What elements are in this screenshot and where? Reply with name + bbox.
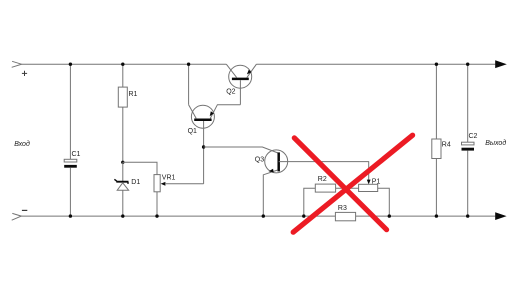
VR1 wiper arrow bbox=[161, 182, 204, 186]
transistor Q3 bbox=[255, 150, 288, 216]
output arrow top bbox=[495, 60, 507, 68]
P1 wiper arrow bbox=[367, 180, 371, 185]
svg-text:Выход: Выход bbox=[485, 139, 506, 147]
node dot C1 top bbox=[69, 62, 72, 65]
wire junction to Q3 collector bbox=[204, 147, 278, 153]
svg-text:R4: R4 bbox=[442, 142, 451, 149]
resistor R2 bbox=[304, 176, 336, 216]
node dot R1/D1/VR1 junction bbox=[121, 161, 124, 164]
svg-text:P1: P1 bbox=[372, 178, 381, 185]
node dot R4 bottom bbox=[435, 214, 438, 217]
potentiometer VR1 bbox=[154, 174, 176, 216]
svg-text:VR1: VR1 bbox=[162, 174, 176, 181]
input terminal + fork bbox=[12, 61, 22, 67]
wire Q3 base to P1 wiper bbox=[279, 162, 369, 180]
resistor R3 bbox=[335, 205, 355, 221]
wire top rail bbox=[22, 63, 227, 65]
node dot D1 bottom bbox=[121, 214, 124, 217]
svg-text:Q2: Q2 bbox=[226, 88, 235, 95]
capacitor C1 bbox=[64, 64, 80, 216]
wire R2 to P1 bbox=[336, 187, 359, 189]
resistor R1 bbox=[118, 64, 137, 162]
label + bbox=[22, 71, 27, 76]
node dot VR1 bottom bbox=[155, 214, 158, 217]
red cross stroke 2 bbox=[293, 135, 412, 232]
zener diode D1 bbox=[114, 162, 140, 216]
node dot C1 bottom bbox=[69, 214, 72, 217]
node dot P1 branch on rail bbox=[388, 214, 391, 217]
svg-text:C1: C1 bbox=[72, 151, 81, 158]
wire Q1 base down to wiper bbox=[203, 121, 205, 184]
svg-text:Вход: Вход bbox=[14, 140, 30, 148]
resistor R4 bbox=[432, 64, 451, 216]
svg-text:R2: R2 bbox=[318, 176, 327, 183]
node dot R1 top bbox=[121, 62, 124, 65]
wire Q2 base down bbox=[239, 80, 241, 105]
svg-text:C2: C2 bbox=[469, 133, 478, 140]
svg-text:Q3: Q3 bbox=[255, 157, 264, 164]
wire bottom rail left bbox=[21, 215, 335, 217]
node dot Q1 collector on rail bbox=[187, 62, 190, 65]
svg-text:R1: R1 bbox=[129, 91, 138, 98]
label - bbox=[22, 209, 27, 211]
node dot R2 branch on rail bbox=[302, 214, 305, 217]
input terminal - fork bbox=[12, 213, 22, 220]
wire junction to VR1 top bbox=[123, 162, 157, 174]
transistor Q1 bbox=[188, 105, 241, 135]
node dot C2 top bbox=[466, 62, 469, 65]
trimmer P1 bbox=[359, 178, 381, 191]
node dot Q3 emitter on bottom rail bbox=[262, 214, 265, 217]
node dot C2 bottom bbox=[466, 214, 469, 217]
wire P1 right to rail bbox=[378, 188, 390, 216]
capacitor C2 bbox=[462, 64, 478, 216]
svg-text:D1: D1 bbox=[131, 179, 140, 186]
transistor Q2 bbox=[226, 64, 256, 95]
node dot R4 top bbox=[435, 62, 438, 65]
svg-text:Q1: Q1 bbox=[188, 128, 197, 135]
wire top rail right of Q2 bbox=[256, 63, 495, 65]
node dot Q1 base / Q3 collector junction bbox=[202, 145, 205, 148]
svg-text:R3: R3 bbox=[338, 205, 347, 212]
red cross stroke 1 bbox=[294, 138, 386, 230]
output arrow bottom bbox=[495, 212, 506, 220]
wire bottom rail right bbox=[356, 215, 496, 217]
wire Q1 collector to top rail bbox=[188, 64, 190, 105]
